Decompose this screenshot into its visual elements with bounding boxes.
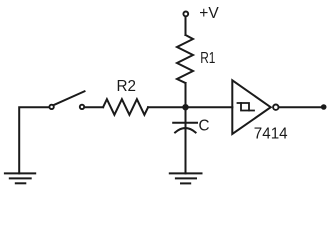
svg-text:R1: R1	[200, 50, 215, 67]
svg-text:C: C	[199, 117, 210, 134]
svg-text:7414: 7414	[254, 125, 288, 142]
svg-text:R2: R2	[117, 78, 137, 95]
svg-text:+V: +V	[199, 5, 219, 22]
